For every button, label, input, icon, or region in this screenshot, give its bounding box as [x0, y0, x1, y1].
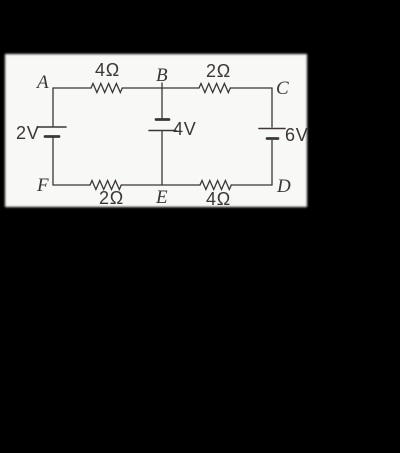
wire B down to battery 4V	[161, 83, 163, 118]
svg-text:C: C	[276, 78, 289, 99]
wire A to R1 (top left)	[53, 87, 91, 89]
wire battery 4V down to E	[161, 132, 163, 186]
svg-text:2Ω: 2Ω	[206, 61, 231, 81]
svg-text:F: F	[36, 175, 49, 196]
svg-text:4Ω: 4Ω	[95, 60, 120, 80]
wire battery 2V down to F	[52, 138, 54, 185]
battery 4V plates	[149, 120, 176, 131]
wire C down to battery 6V	[271, 88, 273, 127]
battery 6V plates	[259, 129, 285, 139]
wire battery 6V down to D	[271, 140, 273, 185]
wire R3 to R4 (through node E)	[121, 184, 200, 186]
svg-text:6V: 6V	[285, 125, 309, 145]
svg-text:E: E	[155, 187, 168, 208]
svg-text:4V: 4V	[173, 119, 197, 139]
svg-text:4Ω: 4Ω	[206, 189, 231, 209]
resistor 2Ω F-E	[90, 181, 121, 190]
wire R1 to R2 (through node B)	[122, 87, 199, 89]
wire A down to battery 2V	[52, 88, 54, 126]
wire R2 to corner C	[230, 87, 272, 89]
resistor 4Ω A-B	[91, 84, 122, 93]
svg-text:B: B	[156, 65, 168, 86]
svg-text:A: A	[35, 72, 49, 93]
resistor 2Ω B-C	[199, 84, 230, 93]
svg-text:D: D	[276, 176, 291, 197]
resistor 4Ω E-D	[200, 181, 231, 190]
wire F to R3 (bottom left)	[53, 184, 90, 186]
svg-text:2Ω: 2Ω	[99, 188, 124, 208]
wire R4 to corner D	[231, 184, 272, 186]
battery 2V plates	[38, 127, 66, 137]
svg-text:2V: 2V	[16, 123, 40, 143]
